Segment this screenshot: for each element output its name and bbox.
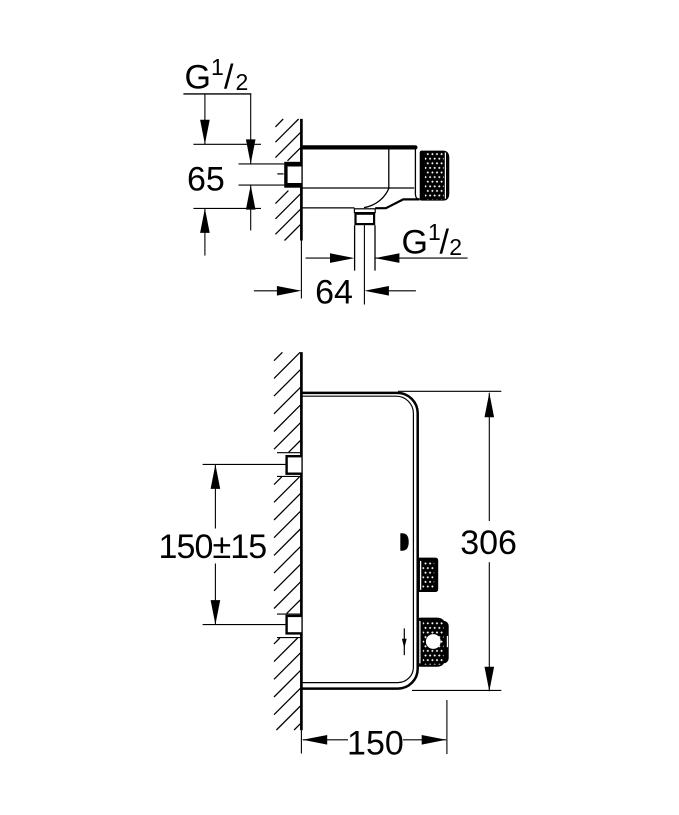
body front face line bbox=[388, 149, 390, 188]
65 dimension extension line (top) bbox=[193, 143, 261, 145]
G 1/2 inlet fitting through wall (black square with white core) bbox=[284, 162, 301, 188]
shower outlet fitting below body bbox=[354, 209, 375, 213]
body top mounting bar (thick) bbox=[301, 145, 417, 149]
svg-text:64: 64 bbox=[315, 273, 353, 311]
leader line to inlet top bbox=[250, 94, 252, 164]
wall face line (top view) bbox=[300, 119, 303, 241]
outlet pipe centre line / extension bbox=[363, 225, 365, 304]
65 dimension lower arrow bbox=[204, 208, 206, 255]
wall extension line down to 64 dimension bbox=[300, 241, 302, 299]
inlet extension line (top) bbox=[239, 163, 285, 165]
svg-text:2: 2 bbox=[236, 69, 249, 95]
body bottom line of cylinder bbox=[301, 187, 414, 189]
leader line to body top bbox=[204, 94, 206, 144]
svg-text:/: / bbox=[224, 58, 234, 96]
G 1/2 label underline (upper left) bbox=[183, 93, 251, 95]
wall hatching (lower view) bbox=[274, 352, 300, 730]
inlet extension line (bottom) bbox=[239, 184, 285, 186]
svg-text:G: G bbox=[185, 58, 211, 96]
svg-text:/: / bbox=[440, 223, 450, 261]
wall face line (lower view) bbox=[300, 352, 303, 730]
64 dimension line + arrows bbox=[254, 290, 279, 292]
65 dimension extension line (bottom) bbox=[193, 207, 261, 209]
svg-text:150: 150 bbox=[347, 724, 404, 762]
upper knob (front view, profile) bbox=[418, 558, 438, 592]
knob end-cap separation line bbox=[444, 153, 446, 199]
body outline inner line bbox=[301, 396, 413, 682]
wall extension line down to 150 dimension bbox=[300, 730, 302, 753]
306 dimension line + arrows bbox=[488, 393, 490, 521]
150±15 extension line (lower) bbox=[203, 624, 286, 626]
G 1/2 right leader with arrows at pipe bbox=[306, 257, 332, 259]
150 dimension line + arrows bbox=[303, 739, 348, 741]
knurled knob (top view, side) bbox=[420, 151, 450, 201]
svg-text:G: G bbox=[402, 223, 428, 261]
inlet lower arrow bbox=[250, 185, 252, 230]
body right neck line bbox=[415, 149, 419, 199]
306 extension line (bottom) bbox=[412, 689, 501, 691]
306 extension line (top) bbox=[398, 390, 501, 392]
body lower fillet curve bbox=[364, 188, 389, 208]
svg-text:2: 2 bbox=[449, 234, 462, 260]
150 bottom: right extension line bbox=[446, 700, 448, 754]
lower hose-coupling knob (front view) bbox=[417, 618, 445, 667]
body bottom edge (left of outlet) bbox=[301, 207, 354, 209]
body bottom chamfer edge (right of outlet) bbox=[375, 199, 420, 208]
svg-text:65: 65 bbox=[187, 160, 225, 198]
temperature D-mark on right edge bbox=[400, 533, 408, 550]
svg-text:306: 306 bbox=[460, 524, 517, 562]
inlet centre tick bbox=[277, 173, 283, 175]
150±15 dimension line + arrows bbox=[214, 464, 216, 528]
wall hatching (top view) bbox=[275, 119, 300, 241]
svg-text:1: 1 bbox=[211, 54, 224, 80]
flow mark arrow bbox=[403, 628, 405, 655]
body outline outer (front view) bbox=[301, 393, 417, 689]
outlet pipe bbox=[354, 225, 356, 270]
upper mounting bracket bbox=[277, 452, 300, 454]
svg-text:150±15: 150±15 bbox=[158, 528, 266, 566]
lower mounting bracket bbox=[277, 613, 300, 615]
150±15 extension line (upper) bbox=[203, 463, 286, 465]
